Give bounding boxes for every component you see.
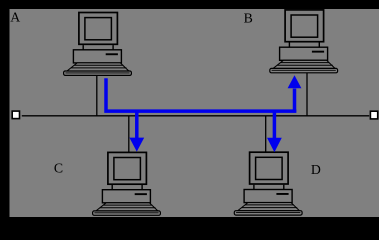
svg-text:C: C <box>54 161 63 176</box>
svg-text:A: A <box>10 10 20 25</box>
svg-text:D: D <box>311 162 321 177</box>
svg-text:B: B <box>244 11 253 26</box>
